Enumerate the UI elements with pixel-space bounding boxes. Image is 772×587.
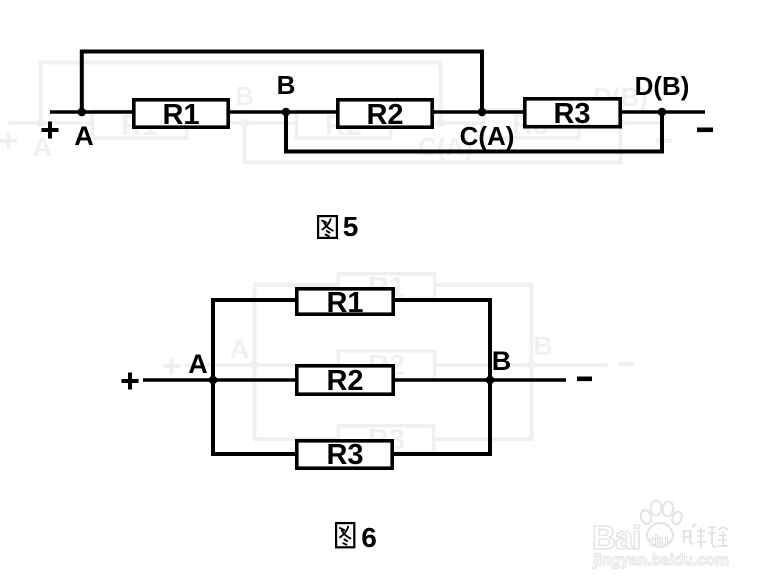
watermark paw print of Baidu logo (639, 501, 683, 548)
watermark glyph "jing" (of jingyan) (682, 524, 706, 548)
faint ghost copy of figure 6 (image artifact) (163, 272, 634, 456)
svg-text:Bai: Bai (592, 519, 640, 556)
svg-text:6: 6 (361, 522, 377, 553)
svg-text:du: du (649, 533, 669, 550)
figure 6 circuit (122, 287, 593, 471)
caption glyph "tu" (figure) of label below figure 5 (318, 216, 337, 238)
watermark glyph "yan" (of jingyan) (708, 527, 728, 547)
caption glyph "tu" (figure) of label below figure 6 (336, 523, 354, 547)
figure 5 circuit (42, 52, 714, 152)
faint ghost copy of figure 5 (image artifact) (0, 63, 672, 163)
svg-text:5: 5 (343, 211, 359, 242)
svg-text:jingyan.baidu.com: jingyan.baidu.com (592, 552, 729, 569)
